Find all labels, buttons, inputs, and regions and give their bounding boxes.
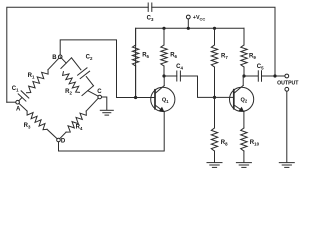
wire — [60, 40, 136, 98]
wire — [48, 57, 60, 70]
svg-text:R4: R4 — [76, 125, 83, 131]
wire (Q1 emitter to D) — [59, 112, 165, 151]
svg-text:C3: C3 — [147, 16, 154, 22]
transistor Q1 — [136, 76, 175, 112]
wire — [72, 58, 81, 70]
wire — [88, 91, 100, 97]
wire — [7, 7, 148, 102]
resistor R5 — [132, 28, 149, 97]
wire — [19, 98, 22, 101]
wire — [180, 76, 233, 97]
svg-text:R8: R8 — [221, 140, 228, 146]
svg-text:C: C — [97, 89, 102, 95]
svg-text:OUTPUT: OUTPUT — [277, 80, 299, 86]
ground (bridge node C) — [100, 110, 113, 115]
node A — [16, 100, 21, 112]
output terminal (bottom) — [285, 87, 289, 91]
output terminal (top) — [285, 74, 289, 78]
capacitor C1 — [12, 86, 29, 101]
svg-text:R2: R2 — [65, 89, 72, 95]
resistor R9 — [241, 28, 257, 76]
svg-text:C4: C4 — [176, 64, 183, 70]
wire (output return) — [286, 91, 288, 162]
node (Q1 base junction) — [134, 96, 137, 99]
svg-text:R1: R1 — [28, 73, 35, 79]
capacitor C4 — [176, 64, 183, 81]
svg-text:C5: C5 — [257, 64, 264, 70]
wire — [152, 7, 275, 76]
ground (R8) — [207, 163, 222, 168]
svg-text:Q1: Q1 — [162, 97, 169, 103]
svg-text:C1: C1 — [12, 86, 19, 92]
wire — [7, 101, 16, 103]
resistor R3 — [24, 111, 47, 130]
resistor R2 — [63, 72, 80, 96]
svg-text:D: D — [61, 139, 66, 145]
node C — [97, 89, 102, 99]
node (output junction) — [273, 74, 276, 77]
wire — [47, 129, 59, 140]
resistor R10 — [241, 128, 260, 162]
node (Q2 base junction) — [213, 96, 216, 99]
svg-text:A: A — [16, 107, 21, 113]
wire (Vcc rail) — [136, 28, 244, 97]
resistor R1 — [27, 70, 49, 93]
wire — [82, 86, 94, 96]
node B — [52, 55, 62, 61]
wire — [60, 57, 66, 63]
wire — [244, 75, 258, 77]
svg-text:R5: R5 — [142, 53, 149, 59]
wire — [86, 98, 98, 111]
wire — [19, 103, 27, 111]
wire (Q2 emitter to R10) — [243, 112, 245, 128]
svg-text:Q2: Q2 — [240, 97, 247, 103]
svg-text:R9: R9 — [249, 54, 256, 60]
resistor R4 — [66, 111, 86, 132]
+Vcc terminal — [186, 15, 205, 30]
wire — [262, 75, 285, 77]
capacitor C3 — [147, 3, 154, 22]
ground (output) — [279, 163, 294, 168]
ground (R10) — [236, 163, 251, 168]
svg-text:C2: C2 — [86, 55, 93, 61]
node (Q2 collector junction) — [242, 74, 245, 77]
svg-text:B: B — [52, 55, 57, 61]
wire — [102, 97, 107, 110]
node D — [57, 138, 66, 144]
wire — [60, 132, 66, 139]
svg-text:R10: R10 — [250, 140, 260, 146]
svg-text:R3: R3 — [24, 123, 31, 129]
capacitor C5 — [257, 64, 264, 81]
transistor Q2 — [230, 76, 254, 112]
svg-text:R6: R6 — [170, 53, 177, 59]
node (Q1 collector junction) — [162, 74, 165, 77]
capacitor C2 — [78, 55, 93, 79]
svg-text:+VCC: +VCC — [193, 15, 206, 21]
resistor R6 — [161, 27, 178, 76]
resistor R7 — [211, 27, 228, 98]
svg-text:R7: R7 — [221, 54, 228, 60]
wire — [164, 75, 177, 77]
wire — [61, 58, 72, 69]
resistor R8 — [211, 97, 228, 162]
